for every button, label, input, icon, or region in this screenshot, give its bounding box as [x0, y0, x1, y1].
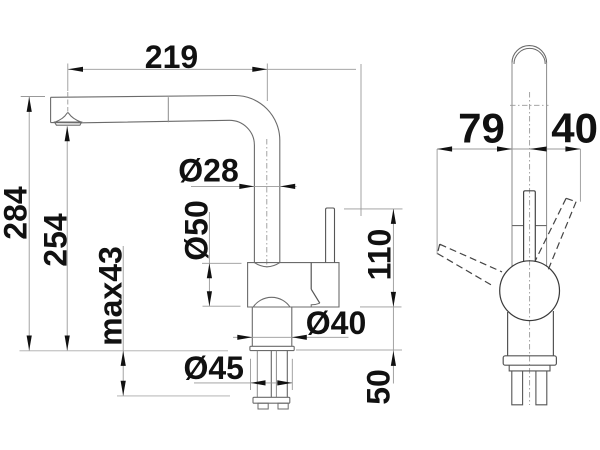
upright lever bar [524, 191, 536, 262]
svg-text:40: 40 [551, 105, 598, 152]
svg-text:110: 110 [362, 229, 398, 281]
surface line left [20, 350, 229, 352]
wire spout seam line [167, 97, 169, 122]
wire spout left end cap [50, 97, 52, 122]
ext Ø45 right [291, 359, 293, 390]
arrow Ø50 bottom [207, 291, 212, 306]
arrow Ø45 left [251, 380, 266, 385]
dims right view [437, 149, 580, 254]
aerator lip [55, 122, 82, 125]
aerator outlet triangle [55, 113, 81, 122]
arrow Ø28 left [239, 184, 254, 189]
arrow Ø40 left [237, 335, 252, 340]
ext 110 bottom [360, 306, 402, 308]
body block [248, 263, 339, 307]
dome arch of base [253, 297, 290, 307]
arrow 40 left [530, 147, 547, 152]
arrow 219 right [252, 67, 267, 72]
arrows left view [27, 67, 396, 396]
hose end tabs [258, 403, 268, 409]
ball joint circle [500, 261, 560, 321]
arrow max43 top [121, 351, 126, 366]
arrow Ø50 top [207, 263, 212, 278]
arrow Ø45 right [277, 380, 292, 385]
tube edges [512, 63, 547, 267]
svg-text:79: 79 [458, 105, 505, 152]
ext left x437 [436, 149, 438, 254]
ext right x580 [579, 149, 581, 202]
ext line right of 219 [266, 64, 268, 102]
lever handle bar (side view) [326, 208, 335, 263]
svg-text:284: 284 [0, 186, 34, 240]
dim 79/40 line [437, 148, 580, 150]
arrow 79 left [437, 146, 452, 151]
dim 254 line [66, 126, 68, 350]
arrow 254 bottom [65, 336, 70, 351]
surface line right [296, 349, 402, 351]
arrow 219 left [68, 67, 83, 72]
ext Ø50 bottom [203, 305, 241, 307]
column sides [508, 311, 554, 356]
arrow 284 bottom [27, 336, 32, 351]
arrow 50 top [391, 351, 396, 366]
dim Ø40 line [233, 336, 349, 338]
ext line 284 top [21, 96, 45, 98]
svg-text:max43: max43 [93, 246, 129, 346]
ext 110 top [344, 208, 403, 210]
arrow 110 bottom [391, 292, 396, 307]
lever housing detail [310, 263, 312, 290]
svg-text:Ø50: Ø50 [179, 200, 215, 260]
joint lines [512, 225, 547, 227]
supply hoses [257, 351, 276, 398]
texts left view [0, 39, 398, 405]
centerline downtube [266, 139, 268, 268]
right dashed lever [535, 198, 576, 272]
arrow max43 bottom [121, 381, 126, 396]
crosshair horizontal [510, 104, 549, 106]
base cylinder sides [252, 307, 291, 346]
svg-text:Ø40: Ø40 [306, 305, 366, 341]
dim Ø45 line [194, 382, 292, 384]
ext Ø50 top [202, 262, 242, 264]
centerline aerator [67, 64, 69, 92]
hose left [512, 371, 523, 405]
dim max43 line [122, 246, 124, 396]
arrow 110 top [391, 209, 396, 224]
dim 284 line [28, 97, 30, 351]
base flange [250, 346, 294, 350]
step under flange [509, 365, 550, 371]
tube-body fillet arc [254, 263, 279, 267]
ext line vertical x361 [360, 64, 362, 216]
dim Ø50 line [208, 212, 210, 306]
locknut [253, 397, 290, 403]
svg-text:Ø28: Ø28 [178, 153, 238, 189]
left dashed lever [437, 244, 502, 285]
svg-text:254: 254 [38, 213, 74, 267]
dim 110 line [392, 209, 394, 384]
arrow Ø40 right [292, 335, 307, 340]
dim Ø28 line [191, 185, 297, 187]
dim 219 line [68, 68, 356, 70]
tube cap inner arc [514, 48, 545, 64]
wire spout bottom edge and inner bend [51, 120, 255, 262]
svg-text:Ø45: Ø45 [183, 350, 243, 386]
arrow 40 right [565, 146, 580, 151]
hose right [536, 371, 547, 405]
tube cap outer arc [512, 46, 547, 63]
arrow 284 top [27, 97, 32, 112]
wire spout outline top and outer bend [51, 96, 280, 263]
arrow 254 top [65, 126, 70, 141]
centerline vertical [529, 92, 531, 405]
arrow Ø28 right [280, 184, 295, 189]
max43 ref line bottom [117, 395, 230, 397]
arrow 79 right [497, 146, 512, 151]
svg-text:219: 219 [145, 39, 198, 75]
flange right view [503, 356, 556, 365]
ext Ø45 left [250, 359, 252, 390]
svg-text:50: 50 [361, 369, 397, 405]
